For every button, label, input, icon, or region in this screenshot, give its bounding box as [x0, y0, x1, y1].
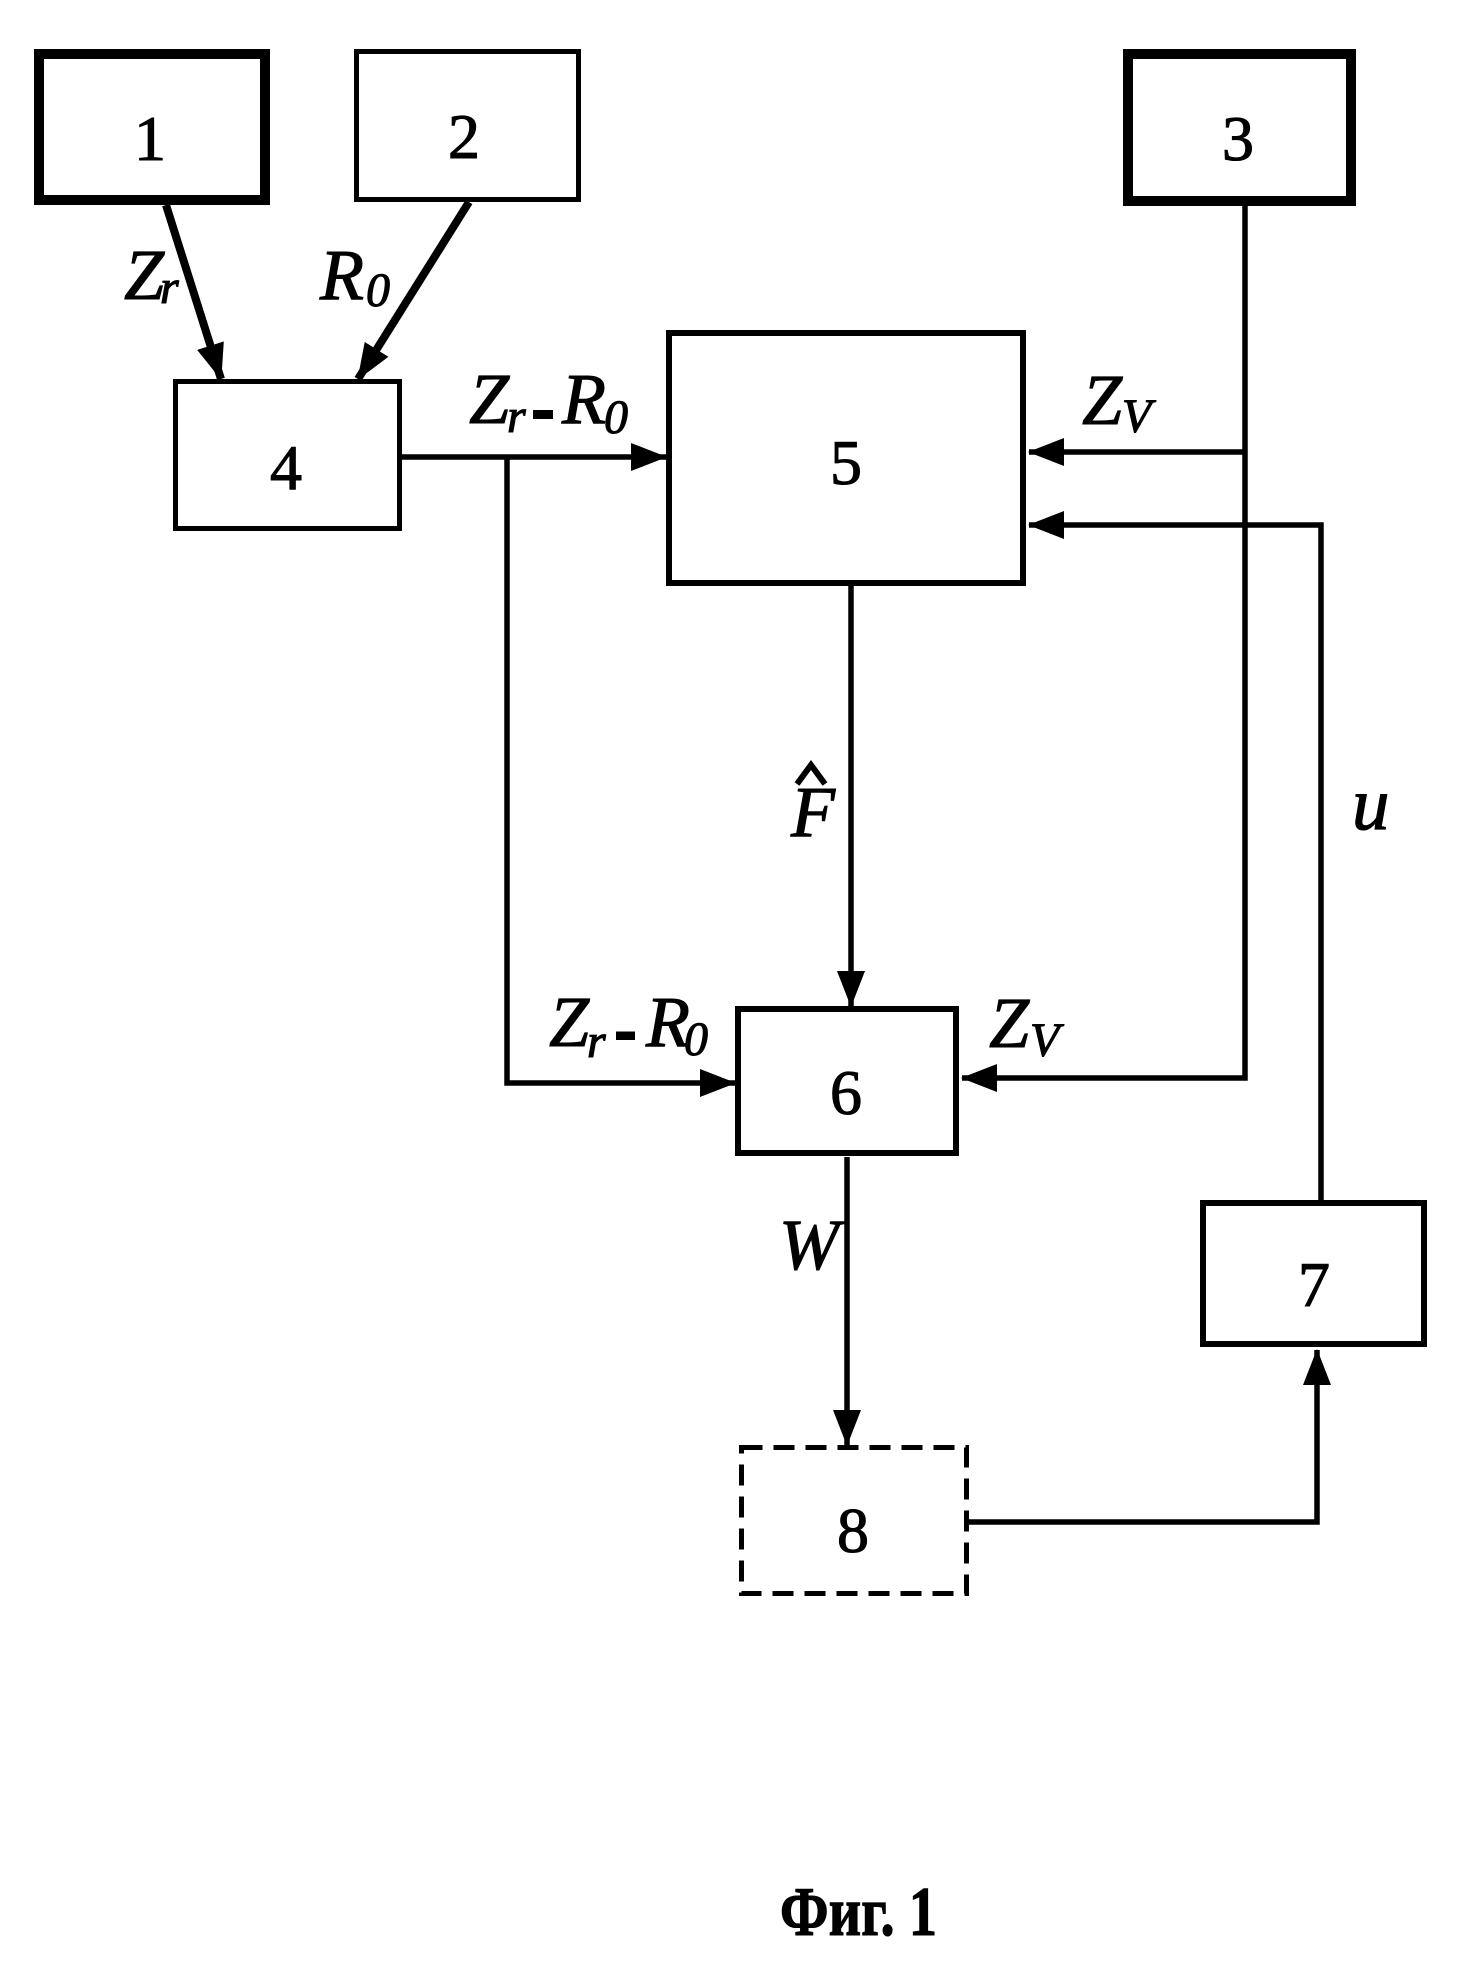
- box 3: [1128, 54, 1351, 201]
- wire 5 to 6 (vertical arrow): [848, 584, 854, 1006]
- wire 4 to 5 (horizontal arrow): [402, 454, 666, 460]
- box 1: [39, 54, 265, 200]
- svg-text:F: F: [790, 772, 836, 852]
- wire Zv into 5: [1029, 449, 1245, 455]
- wire 1 to 4 (diagonal arrow): [166, 205, 221, 379]
- hat of F: [797, 765, 825, 784]
- box 7: [1203, 1203, 1424, 1344]
- box 8 (dashed): [742, 1448, 967, 1594]
- svg-text:8: 8: [837, 1495, 869, 1566]
- wire branch from 4-5 line down into 6: [507, 455, 735, 1083]
- box 5: [669, 333, 1023, 583]
- wire 3 down then into 6: [962, 204, 1245, 1078]
- box 6: [738, 1009, 956, 1153]
- wire 2 to 4 (diagonal arrow): [358, 202, 469, 379]
- svg-text:7: 7: [1298, 1249, 1330, 1320]
- svg-text:W: W: [779, 1205, 845, 1285]
- svg-text:4: 4: [270, 432, 302, 503]
- svg-text:u: u: [1352, 763, 1390, 846]
- dash of Zr-R0 upper: [533, 410, 553, 419]
- svg-text:2: 2: [448, 101, 480, 172]
- wire u from 7 up into 5: [1029, 525, 1321, 1200]
- box 2: [357, 52, 579, 200]
- svg-text:Фиг. 1: Фиг. 1: [780, 1874, 937, 1951]
- svg-text:1: 1: [134, 103, 166, 174]
- box 4: [176, 382, 400, 529]
- svg-text:3: 3: [1222, 103, 1254, 174]
- svg-text:6: 6: [830, 1057, 862, 1128]
- wire 6 to 8 (vertical arrow): [844, 1157, 850, 1445]
- svg-text:5: 5: [830, 427, 862, 498]
- dash of Zr-R0 lower: [616, 1032, 635, 1041]
- wire 8 to 7: [967, 1350, 1317, 1522]
